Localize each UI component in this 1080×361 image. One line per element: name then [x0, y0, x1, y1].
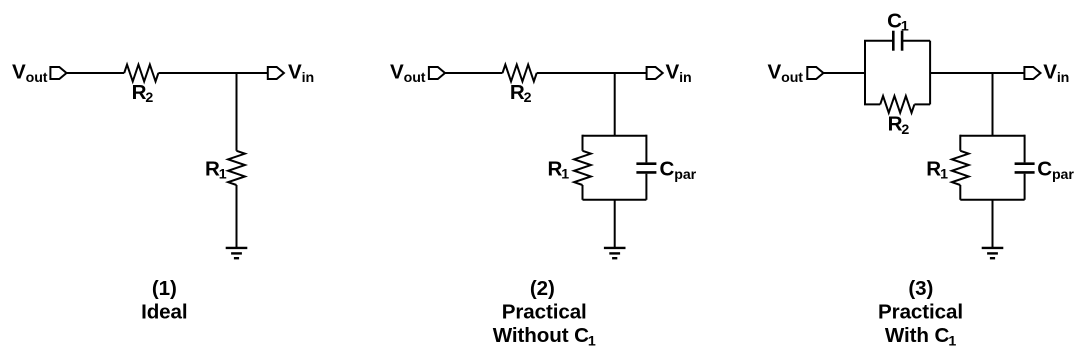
wire V_out port to R2: [67, 72, 125, 74]
ground (1): [226, 248, 248, 258]
wire block right branch (3): [929, 41, 931, 105]
wire junction down to parallel block (3): [992, 73, 994, 136]
resistor R2 (1): [124, 65, 158, 82]
label R1 (1): [205, 158, 227, 183]
svg-text:Practical: Practical: [878, 301, 963, 324]
wire top to capacitor Cpar (3): [1024, 135, 1026, 163]
wire Cpar to block bottom (3): [1024, 174, 1026, 200]
label R1 (2): [548, 158, 570, 183]
port V_in (2): [647, 67, 663, 79]
wire block bottom to ground (3): [992, 200, 994, 248]
label R1 (3): [926, 158, 948, 183]
label R2 (2): [510, 81, 532, 106]
label C1 (3): [887, 9, 909, 34]
wire V_out port to C1/R2 block: [823, 72, 865, 74]
wire junction down to parallel block: [614, 73, 616, 136]
node V_out label (2): [390, 60, 426, 85]
capacitor Cpar (3): [1015, 164, 1035, 173]
wire R1 to block bottom (3): [959, 185, 961, 200]
port V_out (1): [50, 67, 66, 79]
wire top to R1 (3): [959, 135, 961, 151]
label R2 (3): [888, 113, 910, 138]
capacitor Cpar (2): [636, 164, 656, 173]
wire parallel block top (2): [583, 135, 647, 137]
svg-text:Ideal: Ideal: [141, 301, 187, 324]
port V_in (3): [1024, 67, 1040, 79]
wire junction down to R1: [236, 73, 238, 151]
label R2 (1): [132, 81, 154, 106]
wire parallel block bottom (3): [960, 199, 1024, 201]
wire V_out port to R2: [445, 72, 503, 74]
node V_out label (1): [12, 60, 48, 85]
svg-text:Without C1: Without C1: [493, 324, 596, 350]
wire parallel block top (3): [960, 135, 1024, 137]
svg-text:(3): (3): [908, 277, 933, 300]
wire block bottom right segment (3): [914, 103, 930, 105]
wire R1 to ground: [236, 185, 238, 248]
wire block bottom to ground (2): [614, 200, 616, 248]
port V_out (2): [429, 67, 445, 79]
wire top to R1 (2): [582, 135, 584, 151]
node V_in label (1): [288, 60, 314, 85]
wire top to capacitor Cpar (2): [645, 135, 647, 163]
resistor R1 (1): [228, 151, 245, 185]
wire block to V_in port (3): [930, 72, 1024, 74]
resistor R1 (2): [574, 151, 591, 185]
caption (2) Practical Without C1: [493, 277, 596, 350]
ground (2): [604, 248, 626, 258]
wire block left branch (3): [864, 41, 866, 105]
svg-text:(2): (2): [530, 277, 555, 300]
caption (3) Practical With C1: [878, 277, 963, 350]
wire block bottom left segment (3): [864, 103, 880, 105]
resistor R2 (3): [880, 96, 914, 113]
caption (1) Ideal: [141, 277, 187, 324]
svg-text:With C1: With C1: [885, 324, 956, 350]
resistor R1 (3): [952, 151, 969, 185]
resistor R2 (2): [503, 65, 537, 82]
wire parallel block bottom (2): [583, 199, 647, 201]
port V_out (3): [807, 67, 823, 79]
wire C1 right plate to block right branch: [902, 40, 930, 42]
label Cpar (2): [660, 158, 697, 184]
node V_in label (2): [666, 60, 692, 85]
port V_in (1): [268, 67, 284, 79]
wire R1 to block bottom (2): [582, 185, 584, 200]
svg-text:(1): (1): [152, 277, 177, 300]
wire R2 to V_in port: [537, 72, 647, 74]
node V_out label (3): [768, 60, 804, 85]
wire block top to C1 left plate: [864, 40, 893, 42]
ground (3): [982, 248, 1004, 258]
wire Cpar to block bottom (2): [645, 174, 647, 200]
wire R2 to V_in port: [158, 72, 267, 74]
node V_in label (3): [1043, 60, 1069, 85]
label Cpar (3): [1037, 158, 1074, 184]
svg-text:Practical: Practical: [502, 301, 587, 324]
capacitor C1 (3): [893, 31, 902, 51]
